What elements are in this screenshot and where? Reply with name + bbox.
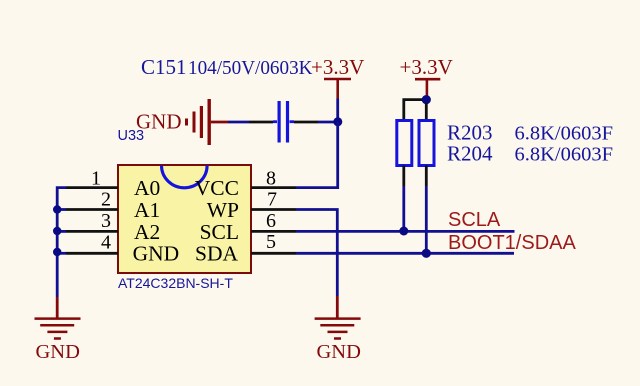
svg-text:+3.3V: +3.3V: [311, 55, 364, 79]
svg-text:R204: R204: [447, 142, 493, 166]
pin 2 A1: [66, 189, 160, 222]
wire node to R204 top: [425, 103, 428, 121]
pin 4 GND: [66, 231, 179, 265]
wire SCL net (pin 6 to SCLA): [296, 230, 515, 233]
svg-text:8: 8: [266, 167, 276, 189]
ground GND (middle bottom): [315, 296, 361, 363]
wire GND to capacitor: [228, 121, 273, 124]
junction node SDA/R204: [422, 249, 431, 258]
wire capacitor to +3.3V node: [294, 99, 338, 123]
power +3.3V (right): [400, 55, 453, 96]
svg-text:SCL: SCL: [200, 220, 239, 244]
resistor R203: [397, 121, 412, 166]
IC U33 AT24C32BN-SH-T body: [118, 165, 251, 273]
svg-text:BOOT1/SDAA: BOOT1/SDAA: [448, 232, 576, 254]
ground GND (left bottom): [35, 297, 81, 363]
svg-text:3: 3: [101, 210, 111, 232]
svg-text:A1: A1: [134, 198, 160, 222]
pin 8 VCC: [195, 167, 296, 200]
pin 3 A2: [66, 210, 160, 244]
junction node R203/R204/+3.3V: [422, 95, 431, 104]
junction node SCL/R203: [399, 227, 408, 236]
power GND (left, rotated bar style): [136, 99, 228, 145]
svg-text:4: 4: [101, 231, 111, 253]
svg-text:6.8K/0603F: 6.8K/0603F: [515, 144, 614, 166]
svg-text:2: 2: [101, 189, 111, 211]
wire R204 bottom to SDA net: [425, 166, 428, 254]
pin 1 A0: [66, 167, 160, 200]
svg-text:A2: A2: [134, 220, 160, 244]
pin 5 SDA: [195, 231, 296, 266]
junction node pin3: [53, 227, 61, 235]
svg-text:WP: WP: [207, 198, 239, 222]
power +3.3V (top): [311, 55, 364, 99]
svg-text:U33: U33: [118, 128, 145, 144]
svg-text:6: 6: [266, 210, 276, 232]
svg-text:1: 1: [91, 167, 101, 189]
pin 6 SCL: [200, 210, 296, 244]
wire +3.3V to resistors node: [425, 96, 428, 100]
svg-text:SCLA: SCLA: [448, 209, 501, 231]
svg-text:SDA: SDA: [195, 242, 238, 266]
svg-text:104/50V/0603K: 104/50V/0603K: [188, 57, 313, 79]
svg-text:VCC: VCC: [195, 176, 239, 200]
svg-text:A0: A0: [134, 176, 160, 200]
svg-text:5: 5: [266, 231, 276, 253]
wire R203 bottom to SCL net: [402, 166, 405, 232]
wire pin 7 to ground: [296, 210, 337, 297]
svg-text:GND: GND: [36, 341, 80, 363]
pin 7 WP: [207, 189, 296, 222]
svg-text:AT24C32BN-SH-T: AT24C32BN-SH-T: [118, 275, 233, 291]
resistor R204: [419, 121, 434, 166]
IC notch arc: [162, 166, 208, 188]
wire +3.3V node down to pin 8: [296, 122, 338, 188]
svg-text:GND: GND: [133, 242, 180, 266]
wire pins 1-4 bus to ground: [57, 188, 66, 297]
junction node pin4: [53, 248, 61, 256]
svg-text:GND: GND: [317, 341, 361, 363]
svg-text:C151: C151: [141, 55, 187, 79]
junction node +3.3V / C151 / VCC: [333, 117, 342, 126]
svg-text:7: 7: [267, 189, 277, 211]
svg-text:+3.3V: +3.3V: [400, 55, 453, 79]
capacitor C151: [273, 101, 294, 143]
wire SDA net (pin 5 to BOOT1/SDAA): [296, 252, 514, 255]
svg-text:6.8K/0603F: 6.8K/0603F: [515, 123, 614, 145]
wire node to R203 top: [404, 100, 422, 121]
junction node pin2: [53, 205, 61, 213]
